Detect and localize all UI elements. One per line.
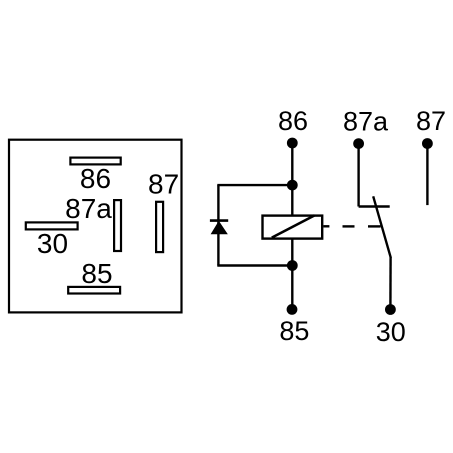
- wire 86 to coil: [291, 143, 293, 216]
- coil actuator stub: [323, 225, 329, 227]
- switch armature diagonal: [373, 196, 391, 257]
- wire bottom branch from diode: [217, 264, 292, 266]
- node junction top: [287, 180, 298, 191]
- wire 87a contact horizontal: [359, 205, 390, 207]
- switch armature vertical: [389, 257, 392, 309]
- terminal 85: [287, 304, 298, 315]
- relay coil: [263, 216, 323, 239]
- wire 87a down: [357, 144, 359, 207]
- svg-text:30: 30: [376, 317, 406, 347]
- terminal 87: [422, 138, 433, 149]
- svg-text:86: 86: [80, 163, 111, 194]
- diode D1: [212, 222, 227, 234]
- pin 87a pad: [114, 200, 121, 251]
- wire coil to 85: [291, 239, 293, 310]
- svg-text:86: 86: [278, 106, 308, 136]
- actuator dash 1: [343, 225, 355, 227]
- relay base outline: [9, 140, 182, 313]
- actuator dash 2: [368, 225, 381, 227]
- wire 87 down: [426, 144, 428, 206]
- node junction bottom: [287, 260, 298, 271]
- svg-text:87: 87: [416, 106, 446, 136]
- terminal 87a: [353, 138, 364, 149]
- pin 85 pad: [68, 287, 120, 294]
- terminal 30: [385, 304, 396, 315]
- pin 86 pad: [70, 158, 120, 165]
- svg-text:30: 30: [37, 228, 68, 259]
- svg-text:87: 87: [148, 169, 179, 200]
- terminal 86: [287, 138, 298, 149]
- diode D1 cathode bar: [210, 219, 228, 222]
- wire diode branch vertical: [217, 185, 219, 265]
- svg-text:85: 85: [279, 316, 309, 346]
- svg-text:85: 85: [81, 258, 112, 289]
- pin 87 pad: [156, 202, 163, 252]
- pin 30 pad: [26, 222, 78, 229]
- svg-text:87a: 87a: [343, 107, 389, 137]
- coil diagonal: [272, 215, 315, 237]
- wire top branch to diode: [217, 184, 292, 186]
- svg-text:87a: 87a: [65, 193, 112, 224]
